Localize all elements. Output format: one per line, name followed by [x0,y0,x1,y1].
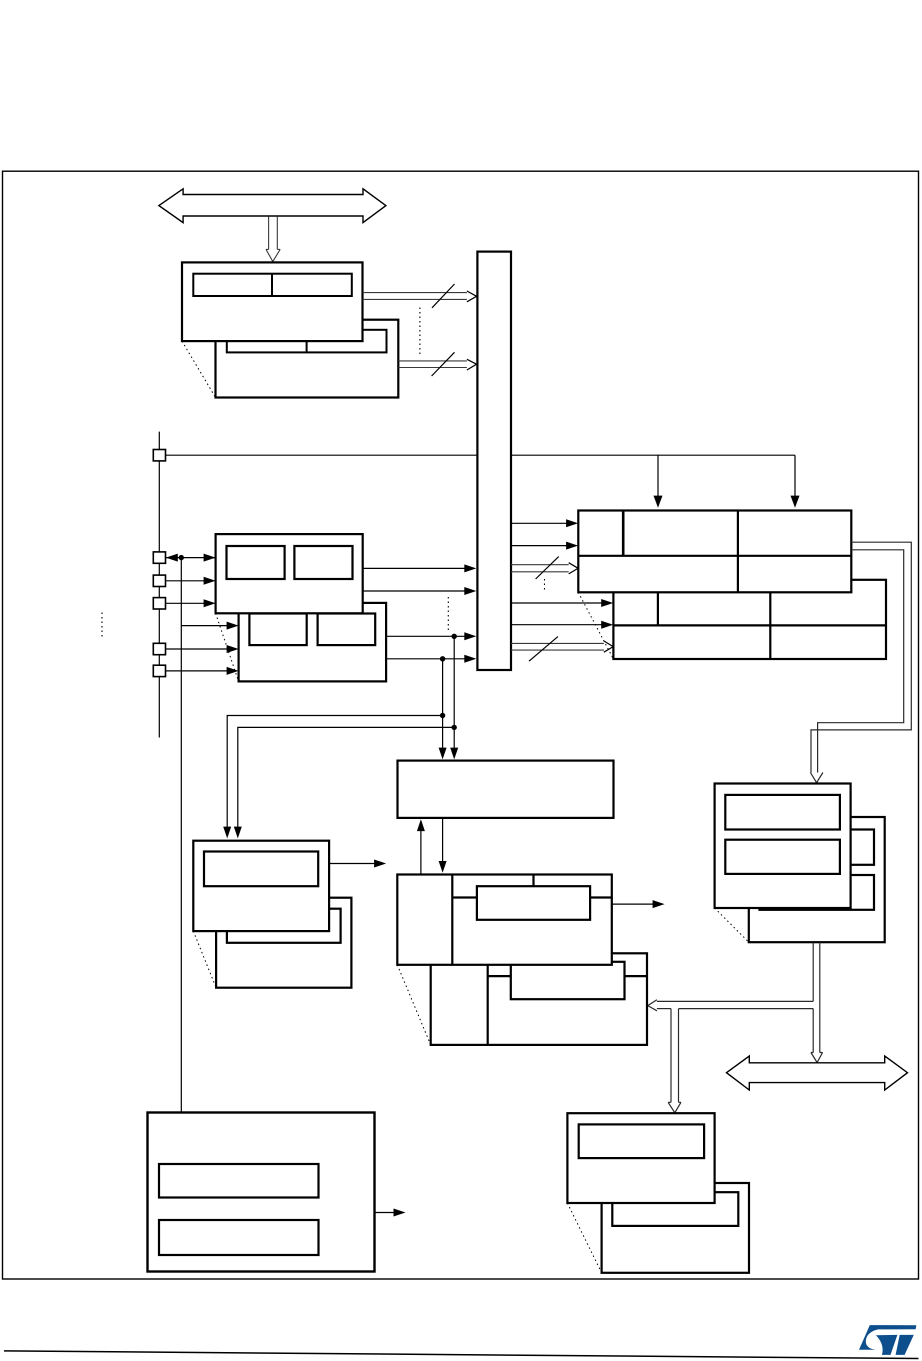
L bus memory to ram block [810,542,911,783]
peripheral double arrow bottom [727,1056,908,1090]
dotted ellipsis matrix wires [447,597,449,631]
inner vertical wire [180,558,182,1113]
branch bus down to timer block [668,1009,681,1113]
arrow clock to cpu [329,863,374,865]
memory block M1 (front) [578,511,851,593]
timer block T2 (behind) [602,1183,749,1273]
hollow bus arrow into block B1 [266,217,280,262]
arrow power out [375,1212,395,1214]
external bus double arrow [159,189,386,223]
timer block T1 (front) [567,1113,714,1203]
fold dotted line P1/P2 [216,613,239,681]
memory block M2 (behind) [613,580,886,659]
vertical wires A and B down to control box [443,636,455,748]
wires ports to matrix [363,568,465,658]
block B2 (behind B1) [216,320,399,398]
arrow cpu out right [612,903,654,905]
down arrow control to cpu [442,818,444,861]
junction dots on matrix wires [452,634,457,639]
bus width slash 4 [529,637,558,662]
cpu block C2 (behind) [431,953,647,1045]
bus pair matrix to flash [511,565,569,572]
fold dotted line T1/T2 [567,1203,601,1273]
bus pair from B1 to matrix [363,293,467,300]
wire W2 to clock block [238,727,454,827]
dotted ellipsis between buses [419,308,421,356]
bus width slash 2 [432,352,455,376]
wires matrix to eeprom block [511,603,602,625]
pin squares [153,450,165,677]
clock block K2 (behind) [216,898,351,988]
wires matrix to flash block [511,523,567,545]
junction dot [179,555,184,560]
cpu block C1 (front) [397,875,612,965]
tee bus to cpu block [648,1000,813,1011]
bus pair matrix to eeprom [511,643,604,650]
bus matrix tall rectangle [477,252,511,670]
power block bottom left [148,1113,375,1272]
pin rail [158,432,160,738]
fold dotted line R1/R2 [715,908,749,942]
fold dotted line B1/B2 [182,341,216,397]
bus width slash 1 [432,284,455,308]
block B1 (front) [182,262,363,341]
ST logo [859,1325,916,1355]
bus pair from B2 to matrix [398,361,467,368]
fold dotted line K1/K2 [193,931,216,988]
port block P2 (behind) [239,603,387,682]
ram bottom bus down [811,942,823,1062]
bus width slash 3 [536,557,559,579]
clock block K1 (front) [193,841,329,931]
fold dotted line M1/M2 [578,592,613,659]
dotted ellipsis flash bus [544,579,546,591]
pin arrows into ports [166,558,229,671]
port block P1 (front) [216,534,363,613]
wire W1 to clock block [227,716,442,828]
up arrow cpu to control [420,831,422,875]
control box [398,761,614,818]
ram block R2 (behind) [749,817,885,942]
footer rule [4,1351,919,1359]
fold dotted line C1/C2 [397,965,430,1045]
wire y455 to memory drops [166,455,796,496]
dotted ellipsis more pins [101,613,103,639]
ram block R1 (front) [715,784,851,909]
